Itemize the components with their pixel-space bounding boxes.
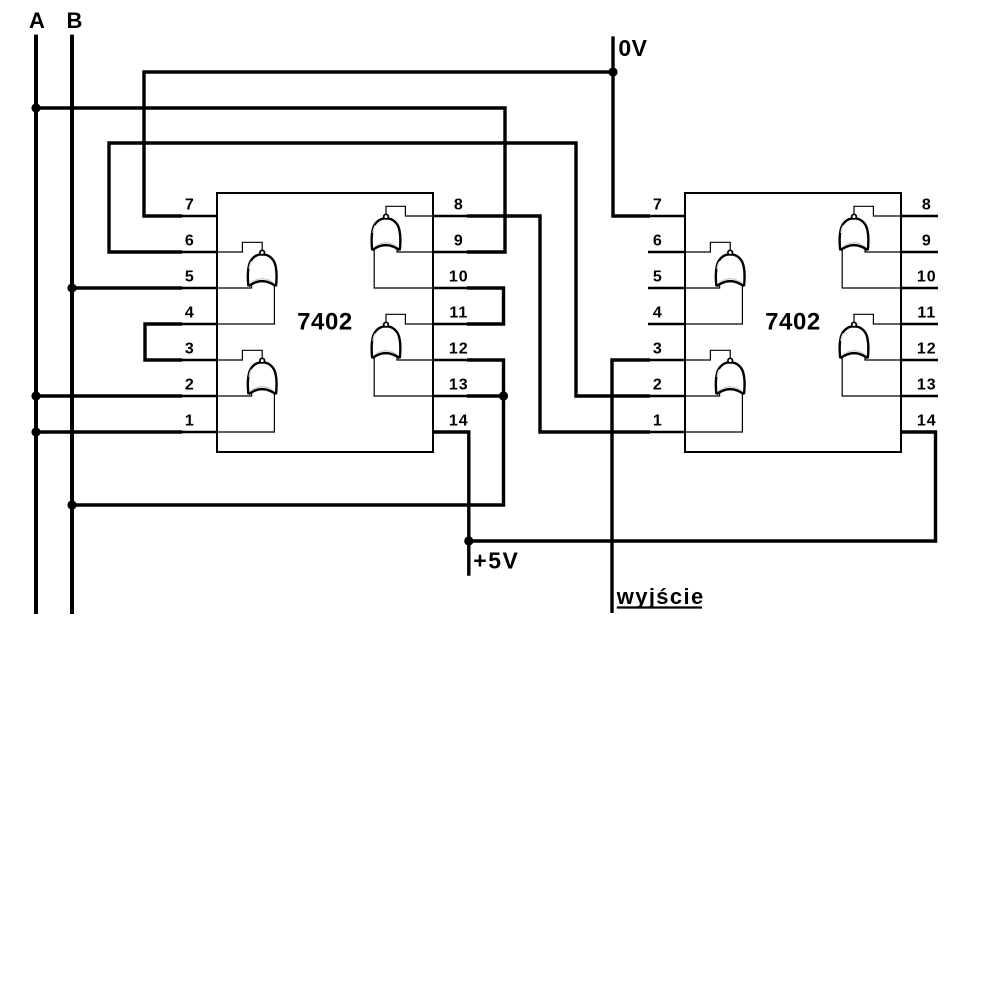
svg-text:6: 6 bbox=[185, 233, 195, 250]
pin 13 stub of U1 bbox=[433, 395, 468, 397]
pin 12 stub of U1 bbox=[433, 359, 468, 361]
svg-text:5: 5 bbox=[653, 269, 663, 286]
svg-text:wyjście: wyjście bbox=[616, 584, 705, 609]
wire: input rail A vertical bbox=[34, 35, 38, 614]
svg-text:7: 7 bbox=[653, 197, 663, 214]
wire: +5V run to U2 pin 14 bbox=[469, 432, 936, 541]
NOR gate U1a (output pin 6, inputs pins 5,4) bbox=[217, 242, 277, 324]
svg-text:12: 12 bbox=[449, 341, 469, 358]
junction: B rail / bottom run bbox=[67, 500, 76, 509]
wire: U2 pin 3 to output bbox=[612, 360, 650, 613]
svg-text:10: 10 bbox=[449, 269, 469, 286]
wire: A to U1 pin 1 bbox=[36, 430, 182, 433]
svg-text:+5V: +5V bbox=[473, 548, 519, 574]
junction: A rail / pin 2 wire bbox=[31, 391, 40, 400]
svg-text:2: 2 bbox=[185, 377, 195, 394]
pin 9 stub of U1 bbox=[433, 251, 468, 253]
pin 5 stub of U1 bbox=[182, 287, 217, 289]
NOR gate U2c (output pin 8, inputs pins 9,10) bbox=[840, 206, 901, 288]
svg-text:4: 4 bbox=[185, 305, 195, 322]
svg-text:5: 5 bbox=[185, 269, 195, 286]
svg-text:1: 1 bbox=[653, 413, 663, 430]
svg-text:13: 13 bbox=[449, 377, 469, 394]
wire: U1 pins 10-11 tie bbox=[467, 288, 504, 324]
svg-text:4: 4 bbox=[653, 305, 663, 322]
wire: A to U1 pin 2 bbox=[36, 394, 182, 397]
svg-text:0V: 0V bbox=[618, 35, 647, 61]
pin 5 stub of U2 bbox=[648, 287, 685, 289]
svg-text:7: 7 bbox=[185, 197, 195, 214]
NOR gate U1d (output pin 11, inputs pins 12,13) bbox=[372, 314, 433, 396]
wire: U1 pins 3-4 tie bbox=[145, 324, 182, 360]
underline of output label bbox=[617, 606, 702, 608]
pin 12 stub of U2 bbox=[901, 359, 938, 361]
IC U1 package outline (7402) bbox=[217, 193, 433, 452]
svg-text:9: 9 bbox=[454, 233, 464, 250]
svg-text:A: A bbox=[29, 8, 45, 33]
pin 10 stub of U2 bbox=[901, 287, 938, 289]
svg-text:2: 2 bbox=[653, 377, 663, 394]
svg-text:6: 6 bbox=[653, 233, 663, 250]
pin 9 stub of U2 bbox=[901, 251, 938, 253]
svg-text:7402: 7402 bbox=[765, 309, 821, 336]
wire: A to U1 pin 9 (top horizontal) bbox=[36, 108, 505, 252]
pin 7 stub of U2 bbox=[650, 215, 685, 217]
pin 3 stub of U2 bbox=[650, 359, 685, 361]
wire: U1 pin 6 to U2 pin 2 bbox=[109, 143, 650, 396]
wire: input rail B vertical bbox=[70, 35, 74, 614]
pin 2 stub of U1 bbox=[182, 395, 217, 397]
junction: 0V node bbox=[608, 67, 617, 76]
NOR gate U1b (output pin 3, inputs pins 2,1) bbox=[217, 350, 277, 432]
wire: U1 pin 8 to U2 pin 1 bbox=[467, 216, 650, 432]
wire: 0V vertical drop to U2 pin 7 bbox=[613, 36, 650, 216]
svg-text:3: 3 bbox=[185, 341, 195, 358]
junction: A rail / pin 9 wire bbox=[31, 103, 40, 112]
svg-text:1: 1 bbox=[185, 413, 195, 430]
NOR gate U2b (output pin 3, inputs pins 2,1) bbox=[685, 350, 745, 432]
wire: U1 pin 14 down to +5V node bbox=[433, 432, 469, 576]
pin 1 stub of U1 bbox=[182, 431, 217, 433]
wire: B to U1 pin 5 bbox=[72, 286, 182, 289]
svg-text:11: 11 bbox=[449, 305, 468, 322]
wire: B to U1 pins 12/13 (bottom run) bbox=[72, 360, 504, 505]
svg-text:8: 8 bbox=[922, 197, 932, 214]
pin 3 stub of U1 bbox=[182, 359, 217, 361]
svg-text:9: 9 bbox=[922, 233, 932, 250]
svg-text:13: 13 bbox=[917, 377, 937, 394]
pin 4 stub of U1 bbox=[182, 323, 217, 325]
pin 10 stub of U1 bbox=[433, 287, 468, 289]
IC U2 package outline (7402) bbox=[685, 193, 901, 452]
svg-text:B: B bbox=[67, 8, 83, 33]
pin 7 stub of U1 bbox=[182, 215, 217, 217]
svg-text:8: 8 bbox=[454, 197, 464, 214]
pin 8 stub of U2 bbox=[901, 215, 938, 217]
svg-text:11: 11 bbox=[917, 305, 936, 322]
pin 2 stub of U2 bbox=[650, 395, 685, 397]
pin 1 stub of U2 bbox=[650, 431, 685, 433]
svg-text:7402: 7402 bbox=[297, 309, 353, 336]
NOR gate U2a (output pin 6, inputs pins 5,4) bbox=[685, 242, 745, 324]
junction: +5V node bbox=[464, 536, 473, 545]
junction: pins 12/13 tie bbox=[499, 391, 508, 400]
pin 6 stub of U2 bbox=[648, 251, 685, 253]
svg-text:10: 10 bbox=[917, 269, 937, 286]
svg-text:14: 14 bbox=[449, 413, 469, 430]
wire: branch into U1 pin 13 bbox=[467, 394, 504, 397]
junction: A rail / pin 1 wire bbox=[31, 427, 40, 436]
pin 11 stub of U2 bbox=[901, 323, 938, 325]
NOR gate U2d (output pin 11, inputs pins 12,13) bbox=[840, 314, 901, 396]
junction: B rail / pin 5 wire bbox=[67, 283, 76, 292]
pin 4 stub of U2 bbox=[648, 323, 685, 325]
wire: 0V branch to U1 pin 7 bbox=[144, 72, 613, 216]
pin 14 stub of U2 bbox=[901, 431, 936, 433]
svg-text:14: 14 bbox=[917, 413, 937, 430]
pin 11 stub of U1 bbox=[433, 323, 468, 325]
svg-text:3: 3 bbox=[653, 341, 663, 358]
pin 8 stub of U1 bbox=[433, 215, 468, 217]
pin 14 stub of U1 bbox=[433, 431, 468, 433]
pin 13 stub of U2 bbox=[901, 395, 938, 397]
pin 6 stub of U1 bbox=[182, 251, 217, 253]
NOR gate U1c (output pin 8, inputs pins 9,10) bbox=[372, 206, 433, 288]
svg-text:12: 12 bbox=[917, 341, 937, 358]
